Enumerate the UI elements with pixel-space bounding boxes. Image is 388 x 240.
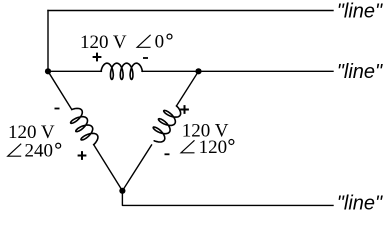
minus polarity (left winding) [55, 108, 60, 110]
wire middle horizontal to line terminal [199, 70, 334, 72]
minus polarity (right winding) [165, 153, 170, 155]
angle symbol (right winding) [181, 140, 195, 153]
node C (bottom) [119, 188, 125, 194]
wire right edge lower segment [122, 145, 151, 191]
degree ring (right winding) [229, 140, 234, 145]
wire top edge left segment [48, 70, 101, 72]
svg-text:"line": "line" [337, 192, 383, 214]
wire top horizontal to top line terminal [48, 10, 333, 12]
inductor winding L1 top (120 V at 0 deg) [101, 63, 142, 79]
node B (right) [195, 68, 201, 74]
degree ring (top winding) [167, 34, 172, 39]
degree ring (left winding) [56, 143, 61, 148]
angle symbol (left winding) [8, 144, 22, 157]
svg-text:"line": "line" [337, 61, 383, 83]
node A (left) [45, 68, 51, 74]
wire top edge right segment [142, 70, 199, 72]
plus polarity (right winding) [180, 105, 189, 114]
inductor winding L3 right (120 V at 120 deg) [153, 106, 180, 142]
wire top-left vertical [47, 11, 49, 72]
svg-text:0: 0 [155, 32, 165, 53]
angle symbol (top winding) [137, 35, 151, 48]
wire left edge lower segment [94, 145, 123, 191]
svg-text:120 V: 120 V [80, 32, 127, 53]
plus polarity (left winding) [78, 151, 87, 160]
svg-text:240: 240 [25, 140, 54, 161]
inductor winding L2 left (120 V at 240 deg) [71, 108, 98, 144]
wire bottom elbow to line terminal [122, 191, 333, 206]
wire left edge upper segment [48, 71, 72, 109]
wire right edge upper segment [176, 71, 198, 106]
minus polarity (top winding) [143, 57, 148, 59]
plus polarity (top winding) [93, 53, 102, 62]
svg-text:120: 120 [199, 137, 228, 158]
svg-text:"line": "line" [337, 1, 383, 23]
